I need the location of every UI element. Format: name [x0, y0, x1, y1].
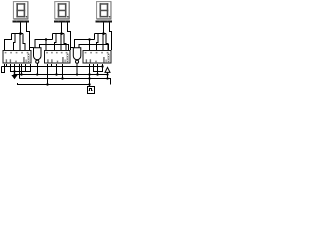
wire: bus to IC U1 pin a [5, 34, 12, 51]
wire: IC U2 pin a drop [45, 40, 47, 51]
node: power stem on reset bus [106, 73, 108, 75]
wire: IC U2 stub to carry bus [51, 64, 53, 67]
wire: IC U3 link loop [94, 64, 103, 72]
node: IC U2 pin on reset bus [55, 73, 57, 75]
wire: IC U1 pin 8 loop to carry bus start [2, 64, 5, 73]
node: clock riser on reset bus [88, 73, 90, 75]
display DSP3 pin connector bar [96, 20, 112, 22]
node: IC U2 pin on supply bus [46, 83, 48, 85]
node: DSP2 bus junction [60, 32, 63, 35]
wire: reset bus [15, 74, 108, 76]
wire: IC U3 pin a drop [89, 40, 91, 51]
node: IC U2 pin on clock bus [61, 77, 63, 79]
node: DSP1 bus junction [19, 32, 22, 35]
wire: IC U2 pin to supply bus [47, 64, 49, 85]
wire: IC U1 pin to reset bus [21, 64, 23, 75]
node: gate G1 output junction [36, 73, 38, 75]
wire: clock generator riser to IC U3 [89, 64, 91, 86]
wire: bus drop to gate line [94, 34, 96, 40]
wire: IC U1 pin 9 stub [6, 64, 8, 67]
wire: gate G1 input B [39, 45, 68, 51]
wire: IC U3 pin to reset bus [97, 64, 99, 75]
wire: carry bus [2, 66, 103, 68]
wire: IC U1 ground stem [14, 64, 16, 75]
wire: bus to IC U2 pin d [64, 34, 66, 51]
wire: bus to IC U2 pin b [55, 34, 57, 51]
wire: gate G2 input B [79, 45, 108, 51]
wire: DSP1 right pin to IC U1 pin e [27, 22, 30, 50]
wire: IC U1 link loop [11, 64, 31, 72]
wire: IC U1 pin to link loop [25, 64, 27, 72]
display DSP1 pin connector bar [13, 20, 29, 22]
node: carry bus to IC U3 junction [101, 65, 103, 67]
wire: power supply stem [107, 72, 109, 78]
wire: IC U1 pin e to gate G1 stub [30, 47, 34, 49]
wire: DSP2 right pin to IC U2 pin e [68, 22, 71, 50]
wire: bus to IC U1 pin d [23, 34, 25, 51]
wire: bus to IC U1 pin b [14, 34, 16, 51]
wire: IC U2 pin to reset bus [56, 64, 58, 75]
wire: DSP1 horizontal bus [12, 33, 24, 35]
wire: DSP2 horizontal bus [53, 33, 65, 35]
wire: gate G2 output to reset bus [76, 63, 78, 74]
wire: display DSP2 stem to bus [61, 22, 63, 33]
ground symbol [12, 75, 17, 78]
node: clock riser on supply bus [88, 83, 90, 85]
display DSP2 pin connector bar [54, 20, 70, 22]
wire: IC U2 pin to clock bus [62, 64, 64, 79]
wire: DSP3 right pin to IC U3 pin e [110, 22, 112, 50]
node: gate G2 output junction [76, 73, 78, 75]
wire: gate G1 output to reset bus [36, 63, 38, 74]
power supply arrow symbol [105, 67, 110, 72]
NAND gate G1 [34, 48, 42, 64]
wire: bus to IC U3 pin d [106, 34, 108, 51]
node: pin a junction [88, 38, 90, 40]
node: ground stem on link loop [13, 70, 15, 72]
counter IC U2 (4026B) [45, 51, 71, 64]
wire: gate G2 input A [75, 40, 95, 48]
7-segment display DSP1 [13, 2, 27, 20]
clock generator CLK1 [88, 87, 95, 94]
wire: IC U1 pin to clock bus [19, 64, 21, 79]
node: power stem on clock bus [106, 77, 108, 79]
wire: clock bus with right stub [20, 79, 111, 85]
node: ground stem on reset bus [13, 73, 15, 75]
node: clock riser on clock bus [88, 77, 90, 79]
wire: bus to IC U2 pin c [60, 34, 62, 51]
node: IC U3 pin on reset bus [96, 73, 98, 75]
counter IC U1 (4026B) [3, 51, 31, 64]
node: IC U1 pin on reset bus [20, 73, 22, 75]
wire: bus to IC U1 pin c [19, 34, 21, 51]
NAND gate G2 [73, 48, 81, 64]
wire: display DSP1 stem to bus [20, 22, 22, 33]
wire: bus drop to gate line [52, 34, 54, 40]
wire: IC U2 pin e to gate G2 stub [71, 47, 74, 49]
7-segment display DSP3 [97, 2, 111, 20]
wire: DSP3 horizontal bus [95, 33, 107, 35]
node: DSP3 bus junction [102, 32, 105, 35]
wire: display DSP3 stem to bus [103, 22, 105, 33]
wire: bus to IC U3 pin b [97, 34, 99, 51]
wire: bus to IC U3 pin c [102, 34, 104, 51]
counter IC U3 (4026B) [83, 51, 111, 64]
wire: gate G1 input A [35, 40, 53, 48]
wire: supply bus [18, 83, 90, 85]
node: pin a junction [45, 38, 47, 40]
7-segment display DSP2 [55, 2, 69, 20]
